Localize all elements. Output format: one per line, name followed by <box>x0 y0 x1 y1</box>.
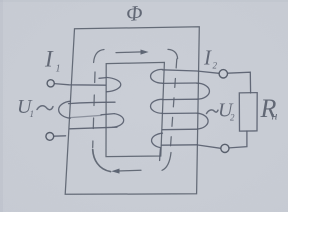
tilde AC symbol left <box>37 106 53 110</box>
svg-text:2: 2 <box>213 61 218 71</box>
primary winding W1 crossing line C <box>70 127 117 129</box>
secondary winding W2 crossing line y113 <box>162 112 197 114</box>
svg-text:н: н <box>272 109 278 123</box>
primary winding W1 crossing line B <box>69 102 116 103</box>
secondary winding W2 right arc 1 <box>197 83 210 99</box>
secondary winding W2 left arc 2 <box>151 99 163 113</box>
transformer core outer boundary <box>65 27 199 195</box>
primary winding W1 turn 2 stub <box>101 114 114 115</box>
flux path top-left corner arc <box>94 50 104 63</box>
flux arrowhead bottom <box>111 169 119 174</box>
flux arrow top (direction right) <box>116 51 142 54</box>
primary winding W1 turn 1 stub <box>99 77 106 80</box>
primary winding W1 crossing line B2 <box>70 115 101 117</box>
flux path top-right corner arc <box>168 49 178 58</box>
wire lower-left terminal lead <box>54 135 66 137</box>
svg-text:I: I <box>44 47 54 72</box>
tilde AC symbol right <box>207 110 219 114</box>
primary winding W1 left arc <box>59 101 71 118</box>
flux arrowhead top <box>141 50 149 55</box>
secondary winding W2 crossing line y99 <box>162 98 197 100</box>
flux path left vertical (dashed) <box>93 72 95 148</box>
svg-text:Φ: Φ <box>125 1 143 26</box>
secondary winding W2 right arc 2 <box>197 113 208 129</box>
wire lower-right winding to terminal <box>197 145 221 148</box>
secondary winding W2 left loop 3 with tail <box>152 133 163 160</box>
terminal circle lower-left <box>46 133 54 141</box>
wire lower-right load to terminal <box>229 131 247 148</box>
secondary winding W2 top crossing with wire to I2 terminal <box>162 70 219 74</box>
primary winding W1 turn 2 right arc <box>112 114 123 128</box>
svg-text:I: I <box>203 46 212 70</box>
paper background <box>0 0 288 212</box>
svg-text:2: 2 <box>230 113 235 123</box>
flux path bottom-left corner arc <box>93 150 111 172</box>
svg-text:1: 1 <box>56 64 61 75</box>
terminal circle lower-right <box>221 144 229 152</box>
flux path bottom-right corner arc <box>162 153 171 171</box>
terminal circle upper-left <box>47 80 54 87</box>
flux path right vertical (dashed) <box>170 59 176 148</box>
transformer core window (inner boundary) <box>106 62 164 156</box>
terminal circle upper-right <box>219 70 227 78</box>
load resistor Rn body <box>239 93 257 132</box>
secondary winding W2 crossing line y129 <box>162 128 197 131</box>
svg-text:1: 1 <box>30 109 35 119</box>
secondary winding W2 crossing line y83 <box>162 82 197 84</box>
secondary winding W2 bottom crossing line y145 <box>162 144 198 146</box>
flux arrow bottom (direction left) <box>118 169 142 172</box>
wire upper-right terminal to load <box>228 72 251 93</box>
primary winding W1 crossing line A with terminal lead <box>55 84 106 86</box>
secondary winding W2 left arc 1 <box>151 69 163 83</box>
primary winding W1 turn 1 right arc <box>106 77 121 91</box>
